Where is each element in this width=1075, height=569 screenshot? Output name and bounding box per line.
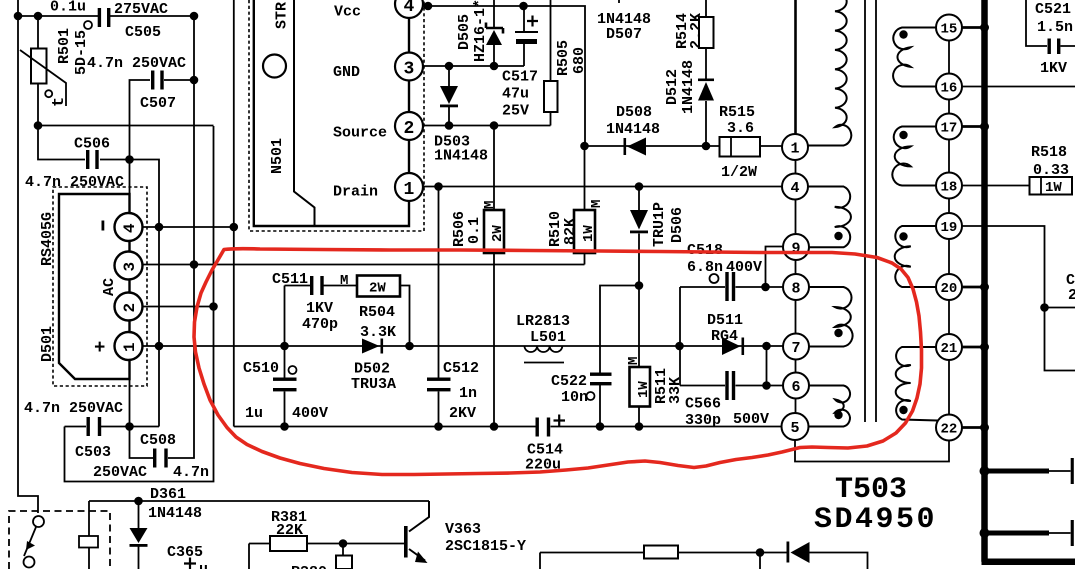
svg-text:D505: D505 [456,14,473,50]
svg-text:10n: 10n [561,389,588,406]
svg-text:1: 1 [791,141,800,158]
wire AC line N vertical x194 [168,16,194,458]
transformer pin 6 [783,373,809,399]
diode D512 [698,79,714,101]
wire C507 left lead down to bridge [130,80,151,194]
transformer pin 9 [783,234,809,260]
wire C517 vertical [523,6,525,66]
svg-text:TRU1P: TRU1P [651,202,668,247]
wire source net left horizontal [38,125,214,127]
wire C507 right lead [164,79,194,81]
svg-text:N501: N501 [269,138,286,174]
wire D361 vertical [138,501,140,569]
transistor V363 [409,501,429,561]
capacitor C514 [536,418,551,437]
svg-text:LR2813: LR2813 [516,313,570,330]
node vcc wire C517 [519,2,528,11]
svg-text:20: 20 [941,281,958,297]
C518 mark [710,274,719,283]
capacitor C505 [98,8,111,27]
svg-text:0.1: 0.1 [466,217,483,244]
svg-text:16: 16 [941,81,958,97]
node drain C512 [434,182,443,191]
node bus pin20 [980,283,989,292]
node D508 right D512 [702,142,711,151]
node pin7 strap [762,342,771,351]
node source R506 [490,121,499,130]
node top-left L [14,12,23,21]
diode D506 [630,210,648,233]
svg-text:18: 18 [941,180,958,196]
svg-text:6: 6 [792,379,801,396]
node rail C522 [596,422,605,431]
svg-text:STR: STR [274,2,291,29]
capacitor C518 [725,272,735,301]
svg-text:4.7n: 4.7n [173,464,209,481]
wire C566 leads [680,385,783,387]
svg-text:R380: R380 [291,564,327,569]
svg-text:M: M [626,357,642,365]
IC pin 2 [395,81,423,141]
svg-text:2KV: 2KV [449,405,476,422]
wire pin17 stub [962,125,982,128]
winding 8-7 [809,287,853,347]
svg-text:D507: D507 [606,26,642,43]
wire pin21 stub [962,346,982,349]
winding 4-9 [809,187,851,248]
wire bottom fragment right [760,553,868,569]
svg-text:17: 17 [941,121,958,137]
capacitor C512 [427,378,451,392]
svg-text:1W: 1W [581,225,597,242]
svg-text:2W: 2W [369,281,386,297]
inductor L501 [525,346,563,352]
wire C503 line [65,426,160,428]
node D361 top [134,497,143,506]
wire D503 vertical [448,66,450,126]
capacitor C517 [515,16,538,45]
bridge pin 3 [115,252,143,280]
wire bottom cold rail [234,426,781,428]
svg-text:1u: 1u [245,405,263,422]
transformer core lines [865,0,876,422]
svg-text:8: 8 [792,281,801,298]
node bus pin22 [980,423,989,432]
svg-text:D361: D361 [150,486,186,503]
transformer pin 7 [783,334,809,360]
svg-text:TRU3A: TRU3A [351,376,396,393]
svg-text:3: 3 [121,262,139,272]
wire pin22 stub [962,426,982,429]
node C507 right [190,76,199,85]
svg-text:4.7n 250VAC: 4.7n 250VAC [24,400,123,417]
wire source descent x213.5 [65,126,214,482]
transformer T503 primary winding top [794,0,797,134]
wire pin19 line [962,226,1075,371]
winding 6-5 [809,386,851,427]
svg-text:M: M [340,273,348,289]
node D502 cathode R504 [405,342,414,351]
wire drain line to transformer pin4 [423,186,783,188]
wire D361 base line [89,500,429,502]
resistor R380 [336,556,352,569]
thick output stub upper [987,469,1049,474]
wire C511 to R504 [324,285,358,287]
svg-text:5: 5 [791,420,800,437]
wire D508 line to transformer pin1 [585,145,784,147]
svg-text:C566: C566 [685,396,721,413]
wire C510 vertical [284,346,286,427]
svg-text:330p: 330p [685,412,721,429]
svg-text:C522: C522 [551,373,587,390]
wire pin16 line [962,86,1075,88]
phase dot winding 8-7 [834,329,842,337]
svg-text:1.5n: 1.5n [1037,19,1073,36]
wire bridge minus descent x233.8 [233,0,235,427]
transformer pin 8 [783,274,809,300]
resistor R514 [699,17,714,48]
node AC N top [190,12,199,21]
wire bridge pin3 line [138,264,585,266]
bridge rectifier D501 body [59,194,130,379]
svg-text:400V: 400V [292,405,328,422]
wire IC vcc top line [423,6,585,146]
thermistor R501 [20,49,66,107]
wire D506 node to C522 branch [600,286,639,427]
wire mid line bridge plus to pin7 [138,345,783,347]
red marker loop hand-drawn [194,249,922,475]
wire pin6 pin7 strap [766,346,768,386]
node R501 top [34,12,43,21]
transformer pin 5 [782,413,809,440]
svg-text:1W: 1W [636,381,652,398]
IC pin 1 [395,140,423,226]
node vcc wire pin4 [424,2,433,11]
svg-text:C510: C510 [243,360,279,377]
wire bridge pin4 line [138,226,234,228]
wire C506 branch [38,126,159,427]
C522 mark [587,392,595,400]
phase dot winding 21-22 [899,406,907,414]
wire C518 C566 left strap [679,287,681,386]
wire C508 left lead and bridge bottom branch [130,379,154,458]
svg-text:4: 4 [404,0,415,17]
svg-text:1: 1 [121,342,139,352]
wire C511 left lead down [285,286,311,347]
svg-text:C508: C508 [140,432,176,449]
transformer pin 20 [936,274,962,300]
svg-text:C365: C365 [167,544,203,561]
svg-text:+: + [94,337,105,359]
resistor R504 flameproof [357,276,400,297]
svg-text:C507: C507 [140,95,176,112]
svg-text:15: 15 [941,22,958,38]
wire zener D505 vertical [493,0,495,66]
svg-text:C512: C512 [443,360,479,377]
wire relay coil vertical [88,501,90,569]
svg-text:HZ16-1*: HZ16-1* [472,0,489,62]
svg-text:47u: 47u [502,86,529,103]
wire C518 leads [680,286,783,288]
svg-text:4.7n 250VAC: 4.7n 250VAC [25,174,124,191]
diode D511 [722,338,744,356]
svg-text:D506: D506 [669,207,686,243]
wire R510 vertical [584,146,586,265]
fusible resistor R518 [1030,177,1073,196]
capacitor C510 [273,378,297,392]
wire IC source right line [423,125,551,127]
node pin2 line x213 [209,302,218,311]
svg-text:4: 4 [121,223,139,233]
secondary bus thick line [982,0,1075,562]
node gnd D505 [490,62,499,71]
wire pin20 stub [962,286,982,289]
wire AC top line to C505 [18,15,193,17]
capacitor C521 [1048,39,1061,55]
svg-text:1n: 1n [459,385,477,402]
transformer pin 18 [936,173,962,199]
transformer pin 16 [936,74,962,100]
svg-text:SD4950: SD4950 [814,503,937,537]
svg-text:AC: AC [101,278,118,296]
zener diode D505 [486,23,503,46]
node pin4 line x158 [155,223,164,232]
resistor R511 flameproof [630,367,651,407]
node C503 bridge branch [125,422,134,431]
transformer pin 1 [782,134,808,160]
IC N501 dashed box [249,0,424,231]
wire IC gnd line [423,65,524,67]
node gnd D503 [445,62,454,71]
svg-text:t: t [50,97,69,107]
svg-text:D511: D511 [707,312,743,329]
svg-text:R505: R505 [555,40,572,76]
svg-text:GND: GND [333,64,360,81]
wire pin15 stub [962,26,982,29]
svg-text:1N4148: 1N4148 [434,148,488,165]
svg-text:D502: D502 [354,361,390,378]
IC pin 3 [395,18,423,81]
capacitor plate lower right [1049,520,1072,546]
fusible resistor R515 [720,137,761,157]
node pin3 line x194 [190,260,199,269]
wire R506 vertical [493,126,495,427]
wire transformer pin column left [795,160,797,414]
phase dot winding 4-9 [834,232,842,240]
C365 plus mark [184,558,196,569]
svg-text:1: 1 [404,180,415,200]
svg-text:400V: 400V [726,259,762,276]
transformer pin 4 [782,174,808,200]
svg-text:C506: C506 [74,136,110,153]
svg-text:0.33: 0.33 [1033,162,1069,179]
svg-text:4: 4 [791,180,800,197]
wire bottom fragment left [540,553,787,569]
thick output stub lower [987,531,1049,536]
capacitor C503 [87,417,102,436]
winding 15-16 [893,28,937,87]
node R381 R380 base [339,539,348,548]
svg-text:C511: C511 [272,271,308,288]
node rail C512 [434,422,443,431]
IC N501 index circle [263,55,286,78]
switch blade [24,527,36,556]
svg-text:82K: 82K [562,218,579,245]
resistor R510 flameproof [574,210,595,253]
diode D502 [362,339,383,354]
svg-text:RS405G: RS405G [39,212,56,266]
node drain D506 [635,182,644,191]
phase dot winding 15-16 [899,30,907,38]
diode D503 [440,86,458,107]
thermistor t-degree mark [45,90,69,107]
wire R381 line [249,544,405,569]
node rail R506 [490,422,499,431]
node C506 C507 join [125,155,134,164]
capacitor plate upper right [1049,458,1072,484]
wire C512 vertical drain to rail [438,187,440,427]
node bottom fragment [756,548,765,557]
C514 plus [554,415,566,427]
svg-text:D508: D508 [616,104,652,121]
node D506 bottom [635,281,644,290]
winding 19-20 [895,226,937,287]
wire pin18 to R518 [962,185,1030,187]
node D508 left R510 [580,142,589,151]
svg-text:L501: L501 [530,329,566,346]
svg-text:C521: C521 [1035,1,1071,18]
resistor R506 flameproof [484,210,504,253]
wire bridge pin2 line [138,306,214,308]
bridge minus label [102,221,105,231]
svg-text:470p: 470p [302,316,338,333]
node bus pin21 [980,343,989,352]
node D511 anode strap [675,342,684,351]
resistor R381 [270,536,307,551]
IC N501 body [254,0,409,226]
svg-text:1N4148: 1N4148 [606,121,660,138]
node bus pin15 [980,23,989,32]
top edge stub [618,0,620,3]
wire L501 core bar [524,362,564,364]
svg-text:RG4: RG4 [711,328,738,345]
svg-text:1W: 1W [1045,180,1062,196]
wire pin9 branch [766,247,784,288]
node rail C510 [280,422,289,431]
wire R505 vertical [550,0,552,126]
node C511 C510 [280,342,289,351]
svg-text:T503: T503 [835,473,907,507]
wire C521 leads [1026,0,1075,46]
svg-text:25V: 25V [502,103,529,120]
bridge pin 1 [115,332,143,360]
svg-text:1KV: 1KV [306,300,333,317]
diode bottom fragment [787,542,810,564]
resistor bottom fragment [644,546,678,559]
wire R511 vertical [638,286,640,427]
phase dot winding 6-5 [834,411,842,419]
bridge rectifier D501 dashed box [53,187,147,386]
node source D503 [445,121,454,130]
bridge pin 2 [115,293,143,321]
node bus pin17 [980,122,989,131]
IC N501 inner notch line [294,0,315,226]
capacitor C566 [725,371,735,400]
diode D508 [624,138,647,156]
svg-text:R518: R518 [1031,144,1067,161]
wire pin19 branch right [1045,307,1075,309]
winding 21-22 [896,347,938,421]
diode D361 [130,528,148,547]
wire R501 branch vertical [37,16,39,126]
svg-text:2SC1815-Y: 2SC1815-Y [445,538,526,555]
relay coil [79,536,98,548]
node pin6 strap [762,381,771,390]
transistor V363 emitter arrow [415,552,428,564]
svg-text:21: 21 [941,341,958,357]
svg-text:2.2K: 2.2K [688,13,705,49]
svg-text:M: M [482,201,498,209]
capacitor C506 [86,150,99,169]
svg-text:1/2W: 1/2W [721,164,757,181]
svg-text:1N4148: 1N4148 [148,505,202,522]
svg-text:V363: V363 [445,521,481,538]
C510 polarity mark [289,366,297,374]
svg-text:Drain: Drain [333,184,378,201]
svg-text:1N4148: 1N4148 [680,60,697,114]
node pin4 line x233 [230,223,239,232]
svg-text:19: 19 [941,220,958,236]
svg-text:3.6: 3.6 [727,120,754,137]
node bus stub lower [980,528,990,538]
bridge pin 4 [115,213,143,241]
wire R380 lead [342,544,344,556]
svg-text:250VAC: 250VAC [93,464,147,481]
switch contact upper [33,516,44,527]
svg-text:R504: R504 [359,304,395,321]
node C518 pin9 pin8 [761,283,770,292]
capacitor C507 [151,71,164,90]
node mid line x159 [155,342,164,351]
transformer pin 22 [936,415,962,441]
svg-text:1KV: 1KV [1040,60,1067,77]
IC pin 4 [395,0,423,18]
switch S301 dashed enclosure [9,511,110,569]
svg-text:D512: D512 [664,69,681,105]
transformer pin 15 [936,15,962,41]
svg-text:2: 2 [121,303,139,313]
svg-text:7: 7 [792,340,801,357]
svg-text:3: 3 [404,60,415,80]
winding 17-18 [892,127,937,186]
svg-text:33K: 33K [667,377,684,404]
svg-text:R515: R515 [719,104,755,121]
svg-text:275VAC: 275VAC [114,1,168,18]
svg-text:u: u [199,561,208,569]
resistor R505 [544,81,558,112]
capacitor C522 [590,373,612,386]
capacitor C511 [310,276,324,295]
wire R514 D512 vertical [705,0,707,146]
node rail R511 [635,422,644,431]
node pin19 branch [1040,303,1049,312]
R501 degree mark [84,21,92,29]
svg-text:22: 22 [941,422,958,438]
svg-text:2W: 2W [490,225,506,242]
svg-text:2: 2 [1068,287,1075,304]
svg-text:9: 9 [792,241,801,258]
phase dot winding 17-18 [899,131,907,139]
